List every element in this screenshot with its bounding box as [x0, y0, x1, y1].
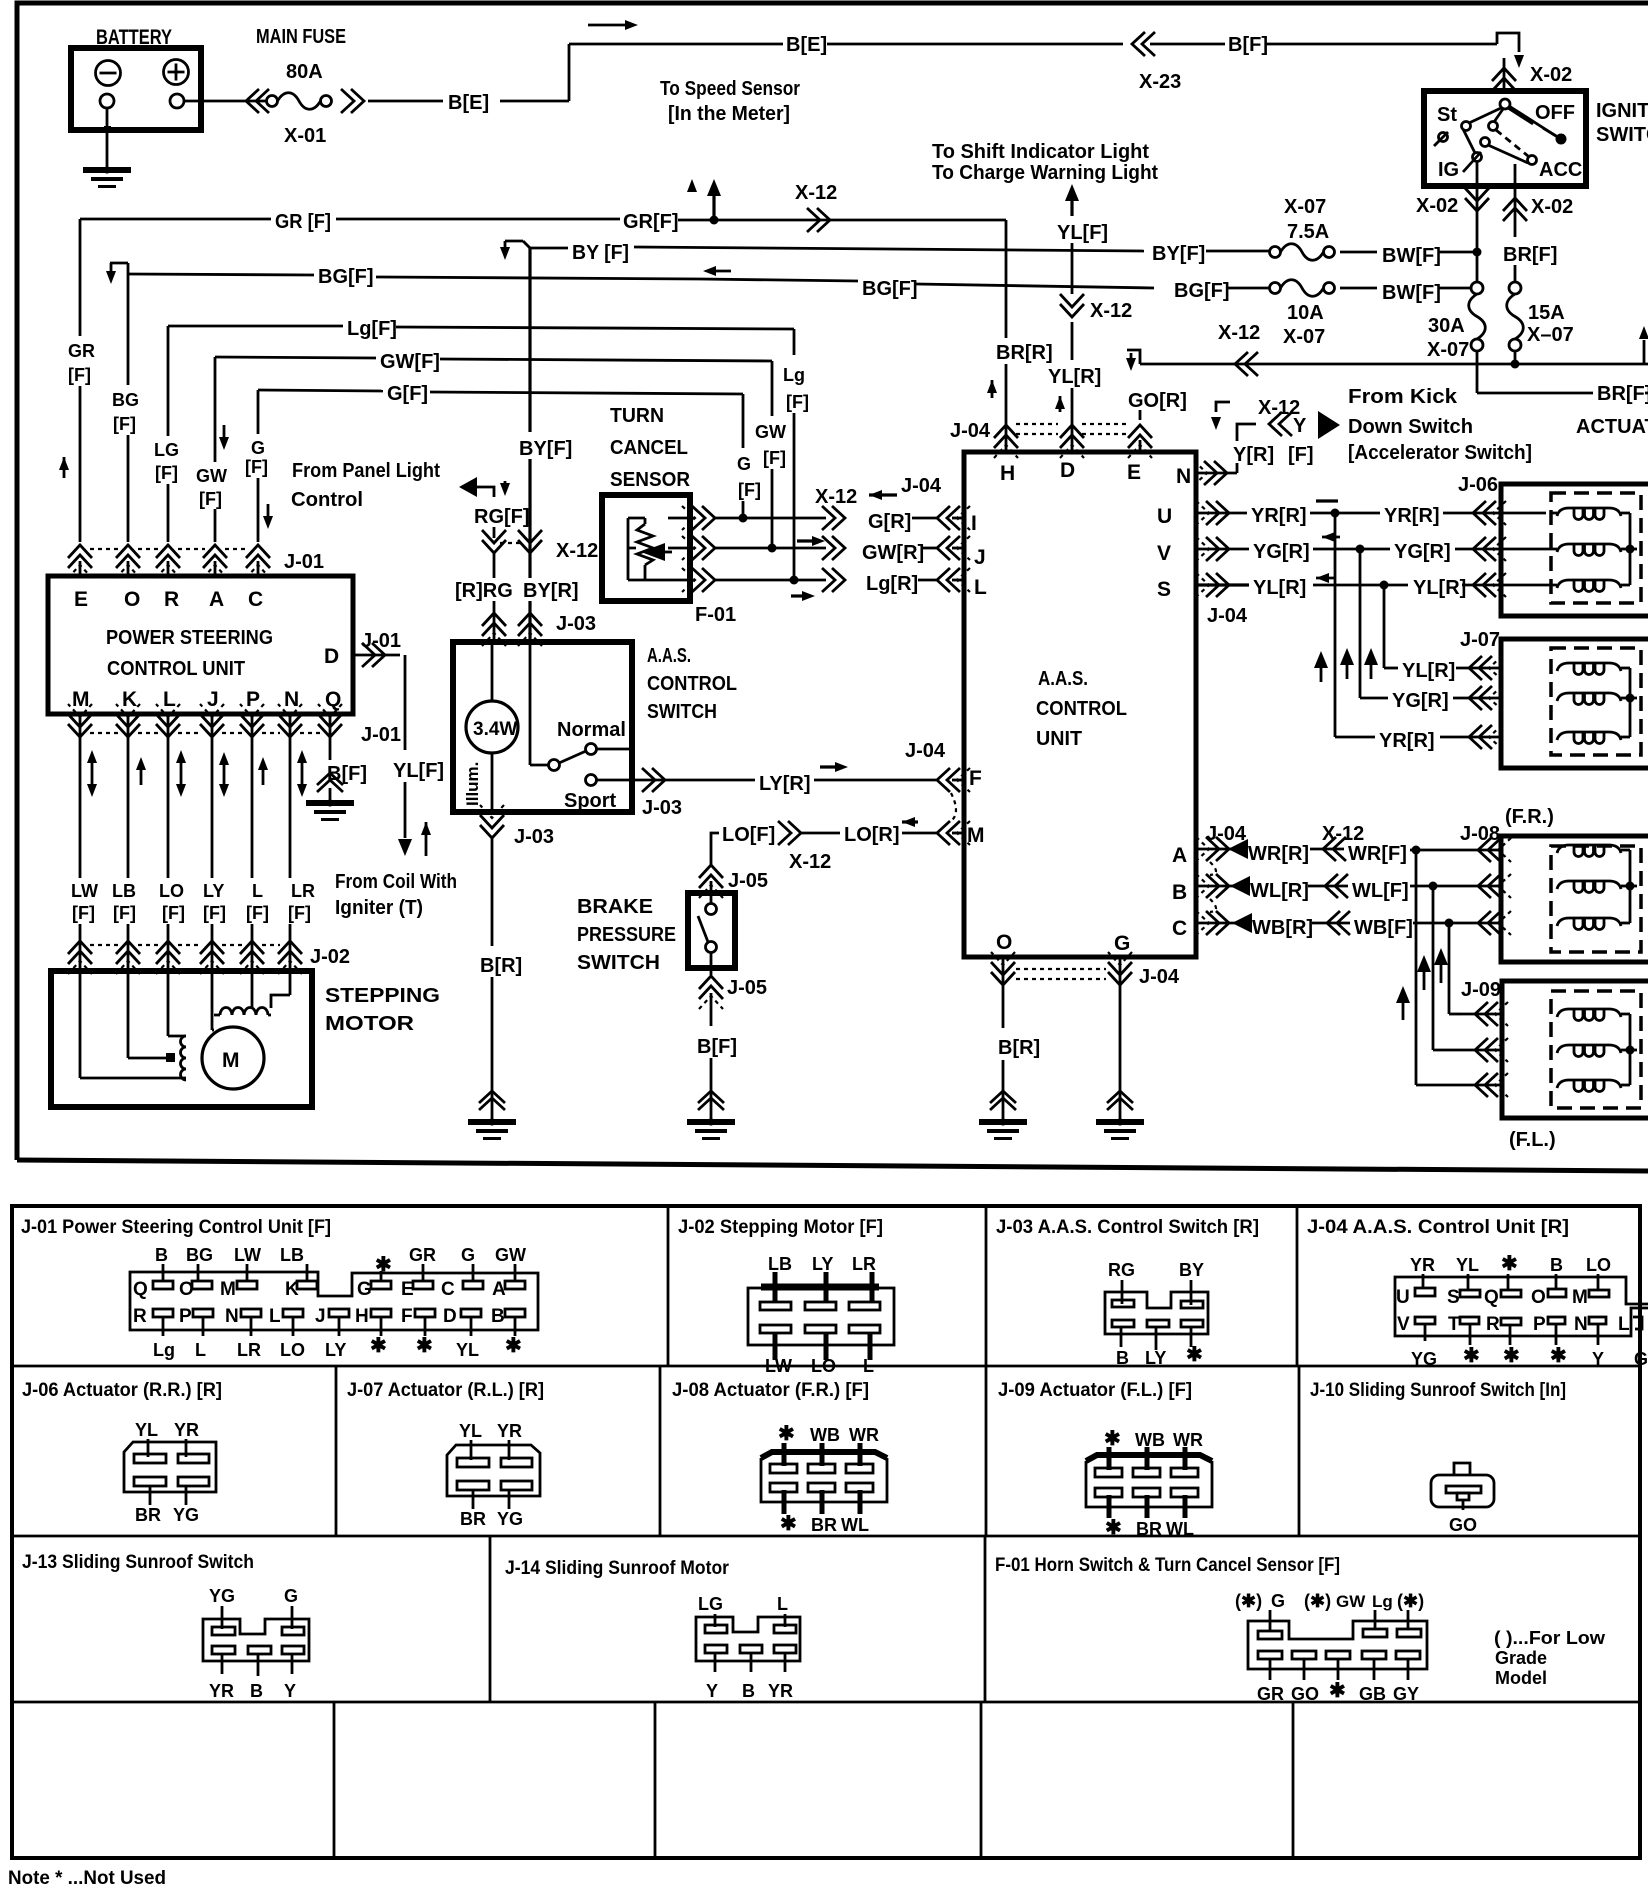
ground brake switch: [687, 1118, 735, 1138]
svg-text:WL: WL: [1166, 1519, 1194, 1539]
svg-text:OFF: OFF: [1535, 102, 1575, 124]
svg-text:Y: Y: [1592, 1349, 1604, 1369]
svg-text:V: V: [1157, 542, 1171, 565]
svg-text:B: B: [1116, 1348, 1129, 1368]
svg-text:X-02: X-02: [1530, 64, 1572, 86]
svg-text:BW[F]: BW[F]: [1382, 245, 1441, 267]
svg-text:M: M: [222, 1049, 240, 1072]
svg-text:WR[R]: WR[R]: [1248, 843, 1309, 865]
arrow right above GW row: [797, 536, 825, 546]
text J-09: [1461, 979, 1501, 1001]
wire G riser left: [245, 390, 273, 542]
svg-text:LY: LY: [325, 1340, 346, 1360]
svg-text:LB: LB: [112, 881, 136, 901]
svg-text:C: C: [441, 1279, 455, 1300]
svg-text:YG: YG: [497, 1509, 523, 1529]
brake pressure switch: [577, 881, 735, 975]
svg-text:(F.L.): (F.L.): [1509, 1129, 1556, 1151]
svg-text:[F]: [F]: [113, 903, 136, 923]
A.A.S. control unit box: [964, 452, 1196, 957]
svg-text:WR: WR: [849, 1425, 879, 1445]
svg-text:✱: ✱: [1329, 1680, 1346, 1702]
svg-text:Q: Q: [133, 1279, 148, 1300]
svg-text:30A: 30A: [1428, 315, 1465, 337]
connector J-04 top row: [950, 420, 1152, 458]
svg-text:CONTROL: CONTROL: [1036, 698, 1127, 720]
svg-text:RG[F]: RG[F]: [474, 506, 530, 528]
svg-text:POWER STEERING: POWER STEERING: [106, 627, 273, 649]
svg-text:YL: YL: [1456, 1255, 1479, 1275]
svg-text:B: B: [1550, 1255, 1563, 1275]
wire LG riser left: [154, 326, 179, 542]
text ignition switch: [1596, 100, 1648, 146]
svg-text:BRAKE: BRAKE: [577, 896, 653, 918]
svg-text:CONTROL: CONTROL: [647, 673, 737, 695]
svg-text:[In the Meter]: [In the Meter]: [668, 103, 790, 125]
wire YR[R] J-07 row3: [1335, 725, 1502, 752]
actuator J-06 box: [1458, 474, 1648, 616]
svg-text:X-12: X-12: [795, 182, 837, 204]
svg-text:✱: ✱: [416, 1335, 433, 1357]
svg-text:D: D: [1060, 459, 1075, 482]
svg-text:GR: GR: [409, 1245, 436, 1265]
connector J-01 bottom: [68, 704, 401, 746]
svg-text:YR[R]: YR[R]: [1384, 505, 1440, 527]
svg-text:O: O: [124, 588, 140, 611]
ground lamp: [468, 1118, 516, 1138]
wire B[R] to ground: [990, 1037, 1040, 1122]
connector J-03 top: [482, 613, 596, 646]
svg-text:X-07: X-07: [1284, 196, 1326, 218]
svg-text:YG[R]: YG[R]: [1394, 541, 1451, 563]
svg-text:I: I: [971, 512, 977, 535]
svg-text:J-03: J-03: [642, 797, 682, 819]
svg-text:GO: GO: [1449, 1515, 1477, 1535]
svg-text:Control: Control: [291, 489, 363, 511]
svg-text:R: R: [164, 588, 179, 611]
svg-text:Down Switch: Down Switch: [1348, 416, 1473, 438]
wire D pin YL[F]: [353, 630, 444, 856]
svg-text:LG: LG: [698, 1594, 723, 1614]
svg-text:LO: LO: [811, 1356, 836, 1376]
svg-text:YG[R]: YG[R]: [1392, 690, 1449, 712]
svg-text:O: O: [1531, 1287, 1546, 1308]
wire GW[F]: [215, 351, 786, 548]
svg-text:L: L: [252, 881, 263, 901]
stepping motor internals: [80, 968, 290, 1089]
svg-text:BR[F]: BR[F]: [1597, 383, 1648, 405]
svg-text:LO: LO: [159, 881, 184, 901]
svg-text:SWITCH: SWITCH: [1596, 124, 1648, 146]
J-04 A row dashed arcs: [1210, 862, 1216, 912]
ground Q pin: [306, 799, 354, 819]
svg-text:To Charge Warning Light: To Charge Warning Light: [932, 162, 1158, 184]
svg-text:P: P: [246, 688, 260, 711]
svg-text:Y: Y: [706, 1681, 718, 1701]
wire BR[F] to 15A fuse: [1503, 244, 1557, 282]
svg-text:ACC: ACC: [1539, 159, 1582, 181]
svg-text:[F]: [F]: [162, 903, 185, 923]
svg-text:LY: LY: [812, 1254, 833, 1274]
text FL: [1509, 1129, 1556, 1151]
wire WR J-09 row3: [1416, 1073, 1508, 1097]
svg-text:LW: LW: [71, 881, 98, 901]
svg-text:BY: BY: [1179, 1260, 1204, 1280]
wire WB row C: [1196, 911, 1511, 939]
svg-text:BY[R]: BY[R]: [523, 580, 579, 602]
svg-text:X-23: X-23: [1139, 71, 1181, 93]
svg-text:YG: YG: [209, 1586, 235, 1606]
svg-text:MAIN FUSE: MAIN FUSE: [256, 26, 346, 48]
switch normal sport: [530, 645, 632, 812]
svg-text:L: L: [1618, 1314, 1630, 1335]
svg-text:BG[F]: BG[F]: [1174, 280, 1230, 302]
F-01 connector drawing: [1235, 1591, 1427, 1704]
svg-text:LR: LR: [237, 1340, 261, 1360]
svg-text:GO: GO: [1291, 1684, 1319, 1704]
svg-text:J-04: J-04: [901, 475, 942, 497]
lamp 3.4W: [463, 645, 518, 812]
wire YL[R] to pin D: [1048, 322, 1101, 452]
text actuator: [1576, 416, 1648, 438]
svg-text:GR[F]: GR[F]: [623, 211, 679, 233]
arrow right below Lg row: [791, 591, 815, 601]
actuator J-09 box: [1502, 981, 1648, 1118]
svg-text:Y: Y: [284, 1681, 296, 1701]
svg-text:BW[F]: BW[F]: [1382, 282, 1441, 304]
svg-text:[F]: [F]: [113, 414, 136, 434]
svg-text:[F]: [F]: [203, 903, 226, 923]
svg-text:GW[R]: GW[R]: [862, 542, 924, 564]
arrow stub on GR junction: [687, 179, 721, 220]
svg-text:C: C: [248, 588, 263, 611]
svg-text:F: F: [969, 767, 982, 790]
svg-text:J-03: J-03: [556, 613, 596, 635]
wire GW riser left: [196, 357, 229, 542]
svg-text:J-04 A.A.S. Control Unit [R]: J-04 A.A.S. Control Unit [R]: [1307, 1217, 1569, 1238]
svg-text:B: B: [250, 1681, 263, 1701]
wire WR row A: [1196, 823, 1511, 865]
svg-text:BY[F]: BY[F]: [519, 438, 572, 460]
connector F-01 column: [682, 506, 736, 626]
svg-text:X-01: X-01: [284, 125, 326, 147]
svg-text:Igniter (T): Igniter (T): [335, 897, 423, 919]
svg-text:UNIT: UNIT: [1036, 728, 1082, 750]
svg-text:P: P: [1533, 1314, 1546, 1335]
wire BR horizontal line A: [1126, 322, 1648, 376]
J-06 connector drawing: [124, 1420, 216, 1525]
wire YL[R] row S: [1196, 573, 1506, 627]
svg-text:YL: YL: [459, 1421, 482, 1441]
svg-text:J-04: J-04: [950, 420, 991, 442]
svg-text:LY: LY: [203, 881, 224, 901]
svg-text:15A: 15A: [1528, 302, 1565, 324]
svg-text:WB[F]: WB[F]: [1354, 917, 1413, 939]
svg-text:✱: ✱: [375, 1254, 392, 1276]
power steering control unit box: [48, 576, 353, 714]
wire LY[R] row: [632, 740, 970, 819]
svg-text:BG: BG: [112, 390, 139, 410]
svg-text:J-05: J-05: [727, 977, 767, 999]
wire Lg[R] row: [713, 573, 938, 595]
text to shift indicator light: [932, 141, 1158, 184]
svg-text:[F]: [F]: [738, 480, 761, 500]
svg-text:J-01: J-01: [361, 630, 401, 652]
svg-text:Normal: Normal: [557, 719, 626, 741]
wire N pin to Y[R]: [1194, 397, 1340, 485]
svg-text:YG[R]: YG[R]: [1253, 541, 1310, 563]
svg-text:( )...For Low: ( )...For Low: [1494, 1628, 1606, 1648]
svg-text:GB: GB: [1359, 1684, 1386, 1704]
svg-text:V: V: [1397, 1314, 1410, 1335]
wire GO[R]: [1128, 390, 1187, 420]
svg-text:✱: ✱: [1186, 1344, 1203, 1366]
connector J-03 lamp bottom: [480, 805, 554, 848]
svg-text:GR: GR: [1257, 1684, 1284, 1704]
svg-text:R: R: [133, 1306, 147, 1327]
svg-text:✱: ✱: [780, 1513, 797, 1535]
svg-text:WL[R]: WL[R]: [1250, 880, 1309, 902]
wire labels LW LB LO LY L LR: [71, 881, 315, 923]
svg-text:L: L: [863, 1356, 874, 1376]
J-07 connector drawing: [447, 1421, 540, 1529]
svg-text:B[R]: B[R]: [998, 1037, 1040, 1059]
svg-text:MOTOR: MOTOR: [325, 1013, 415, 1035]
svg-text:X-12: X-12: [1090, 300, 1132, 322]
svg-text:LY: LY: [1145, 1348, 1166, 1368]
svg-text:U: U: [1396, 1287, 1410, 1308]
svg-text:D: D: [324, 645, 339, 668]
svg-text:E: E: [1127, 461, 1141, 484]
svg-text:LO[F]: LO[F]: [722, 824, 775, 846]
svg-text:IG: IG: [1438, 159, 1459, 181]
svg-text:✱: ✱: [1501, 1253, 1518, 1275]
wire BY[F] 7.5A fuse row: [1152, 196, 1482, 267]
svg-text:J-09 Actuator (F.L.) [F]: J-09 Actuator (F.L.) [F]: [998, 1380, 1192, 1401]
svg-text:Illum.: Illum.: [463, 762, 482, 806]
svg-text:X-02: X-02: [1416, 195, 1458, 217]
svg-text:STEPPING: STEPPING: [325, 985, 440, 1007]
svg-text:M: M: [72, 688, 90, 711]
svg-text:U: U: [1157, 505, 1172, 528]
svg-text:B: B: [155, 1245, 168, 1265]
svg-text:[F]: [F]: [245, 457, 268, 477]
svg-text:J-06 Actuator (R.R.) [R]: J-06 Actuator (R.R.) [R]: [22, 1380, 222, 1401]
J-04 connector drawing: [1395, 1253, 1648, 1369]
svg-text:B: B: [742, 1681, 755, 1701]
svg-text:YL[F]: YL[F]: [1057, 222, 1108, 244]
svg-text:J-14 Sliding Sunroof Motor: J-14 Sliding Sunroof Motor: [505, 1558, 730, 1579]
wires M..N with direction arrows: [80, 743, 307, 878]
svg-text:G: G: [284, 1586, 298, 1606]
svg-text:YR[R]: YR[R]: [1379, 730, 1435, 752]
risers to J-09: [1396, 850, 1449, 1085]
svg-text:LW: LW: [234, 1245, 261, 1265]
svg-text:WB: WB: [1135, 1430, 1165, 1450]
svg-text:LB: LB: [768, 1254, 792, 1274]
svg-text:J: J: [974, 546, 986, 569]
J-08 connector drawing: [761, 1423, 887, 1535]
svg-text:GR [F]: GR [F]: [275, 211, 331, 233]
svg-text:J-02 Stepping Motor [F]: J-02 Stepping Motor [F]: [678, 1217, 883, 1238]
svg-text:R: R: [1486, 1314, 1500, 1335]
wire YG[R] J-07 row2: [1360, 686, 1502, 712]
svg-text:RG: RG: [1108, 1260, 1135, 1280]
svg-text:J-03 A.A.S. Control Switch [R]: J-03 A.A.S. Control Switch [R]: [996, 1217, 1259, 1238]
svg-text:7.5A: 7.5A: [1287, 221, 1329, 243]
svg-text:X-12: X-12: [556, 540, 598, 562]
svg-text:Lg: Lg: [783, 365, 805, 385]
wire frame bottom: [17, 1160, 1648, 1171]
svg-text:YR: YR: [1410, 1255, 1435, 1275]
svg-text:LO[R]: LO[R]: [844, 824, 900, 846]
ignition switch box: [1424, 91, 1586, 186]
svg-text:IGNITION: IGNITION: [1596, 100, 1648, 122]
svg-text:✱: ✱: [778, 1423, 795, 1445]
svg-text:YL[R]: YL[R]: [1253, 577, 1306, 599]
wire IG output: [1476, 161, 1479, 283]
connector J-04 sensor rows: [901, 475, 970, 592]
svg-text:GW: GW: [1336, 1592, 1366, 1611]
wire frame border of schematic: [17, 3, 1648, 1160]
svg-text:YL[R]: YL[R]: [1402, 660, 1455, 682]
wire B[E] top run: [569, 34, 1123, 56]
svg-text:Model: Model: [1495, 1668, 1547, 1688]
svg-text:YR: YR: [497, 1421, 522, 1441]
svg-text:X-02: X-02: [1531, 196, 1573, 218]
svg-text:J-04: J-04: [1207, 605, 1248, 627]
svg-text:[F]: [F]: [246, 903, 269, 923]
connector X-02 ACC: [1503, 196, 1573, 221]
svg-text:J-13 Sliding Sunroof Switch: J-13 Sliding Sunroof Switch: [22, 1552, 254, 1573]
arrow right on B[E]: [588, 20, 638, 30]
svg-text:✱: ✱: [1463, 1345, 1480, 1367]
svg-text:BR: BR: [1136, 1519, 1162, 1539]
svg-text:Y[R]: Y[R]: [1233, 444, 1274, 466]
svg-text:CONTROL UNIT: CONTROL UNIT: [107, 658, 245, 680]
svg-text:J-01: J-01: [361, 724, 401, 746]
wire B[E] battery to riser: [448, 44, 569, 114]
svg-text:BR: BR: [811, 1515, 837, 1535]
svg-text:YL: YL: [135, 1420, 158, 1440]
wire BG riser left: [112, 274, 139, 542]
svg-text:P: P: [179, 1306, 192, 1327]
svg-text:WR: WR: [1173, 1430, 1203, 1450]
svg-text:BR: BR: [460, 1509, 486, 1529]
svg-text:F-01: F-01: [695, 604, 736, 626]
svg-text:G: G: [461, 1245, 475, 1265]
arrow left above G row: [869, 490, 897, 500]
actuator J-07 box: [1460, 629, 1648, 768]
svg-text:YR[R]: YR[R]: [1251, 505, 1307, 527]
svg-text:B[E]: B[E]: [786, 34, 827, 56]
svg-text:B[F]: B[F]: [1228, 34, 1268, 56]
svg-text:J: J: [315, 1306, 326, 1327]
svg-text:J-05: J-05: [728, 870, 768, 892]
connector X-12 sensor rows: [815, 486, 857, 592]
svg-text:GW: GW: [755, 422, 786, 442]
connector J-05 top: [699, 865, 768, 898]
svg-text:A: A: [1172, 844, 1187, 867]
svg-text:(✱): (✱): [1235, 1591, 1262, 1611]
svg-text:TURN: TURN: [610, 405, 664, 427]
svg-text:G: G: [1271, 1591, 1285, 1611]
svg-text:YL[R]: YL[R]: [1048, 366, 1101, 388]
svg-text:Note * ...Not Used: Note * ...Not Used: [8, 1868, 166, 1889]
svg-text:3.4W: 3.4W: [473, 719, 517, 740]
svg-text:SWITCH: SWITCH: [647, 701, 717, 723]
fuse 30A X-07: [1427, 282, 1485, 361]
wire YL[F] riser: [1057, 184, 1108, 294]
ground O pin: [979, 1118, 1027, 1138]
svg-text:J-08 Actuator (F.R.) [F]: J-08 Actuator (F.R.) [F]: [672, 1380, 869, 1401]
svg-text:G: G: [1114, 932, 1130, 955]
J-03 connector drawing: [1105, 1260, 1208, 1368]
svg-text:PRESSURE: PRESSURE: [577, 924, 676, 946]
svg-text:[F]: [F]: [199, 489, 222, 509]
svg-text:SWITCH: SWITCH: [577, 952, 660, 974]
svg-text:H: H: [355, 1306, 369, 1327]
actuator J-08 box: [1501, 836, 1648, 962]
svg-text:Q: Q: [325, 688, 341, 711]
svg-text:✱: ✱: [1550, 1345, 1567, 1367]
svg-text:[F]: [F]: [68, 365, 91, 385]
svg-text:B[F]: B[F]: [697, 1036, 737, 1058]
svg-text:G: G: [737, 454, 751, 474]
svg-text:80A: 80A: [286, 61, 323, 83]
svg-text:YG: YG: [173, 1505, 199, 1525]
wire GR[F]: [80, 211, 1006, 233]
svg-text:G: G: [1634, 1349, 1648, 1369]
svg-text:Sport: Sport: [564, 790, 617, 812]
svg-text:B[R]: B[R]: [480, 955, 522, 977]
svg-text:(✱): (✱): [1397, 1591, 1424, 1611]
A.A.S. control switch box: [453, 642, 737, 812]
svg-text:BG[F]: BG[F]: [862, 278, 918, 300]
wire BG[F]: [106, 263, 1154, 300]
svg-text:K: K: [122, 688, 137, 711]
svg-text:St: St: [1437, 104, 1457, 126]
svg-text:GR: GR: [68, 341, 95, 361]
svg-text:M: M: [1572, 1287, 1588, 1308]
battery: [71, 26, 201, 130]
svg-text:X-12: X-12: [815, 486, 857, 508]
svg-text:YR: YR: [768, 1681, 793, 1701]
wire G[F]: [258, 383, 761, 518]
svg-text:H: H: [1000, 462, 1015, 485]
svg-text:Lg: Lg: [1372, 1592, 1393, 1611]
connector J-02: [68, 941, 350, 974]
svg-text:Lg[F]: Lg[F]: [347, 318, 397, 340]
svg-text:X-12: X-12: [1218, 322, 1260, 344]
svg-text:J-04: J-04: [1139, 966, 1180, 988]
svg-text:E: E: [74, 588, 88, 611]
svg-text:Grade: Grade: [1495, 1648, 1547, 1668]
svg-text:GW[F]: GW[F]: [380, 351, 440, 373]
svg-text:M: M: [220, 1279, 236, 1300]
svg-text:B[E]: B[E]: [448, 92, 489, 114]
J-10 connector drawing: [1431, 1463, 1494, 1535]
svg-text:LG: LG: [154, 440, 179, 460]
text from coil with igniter: [335, 871, 457, 919]
text for low grade model: [1494, 1628, 1606, 1688]
svg-text:YR: YR: [209, 1681, 234, 1701]
risers to J-07: [1314, 513, 1384, 737]
svg-text:A.A.S.: A.A.S.: [647, 645, 691, 667]
wire GW[R] row: [713, 542, 938, 564]
svg-text:[F]: [F]: [288, 903, 311, 923]
svg-text:[F]: [F]: [155, 463, 178, 483]
